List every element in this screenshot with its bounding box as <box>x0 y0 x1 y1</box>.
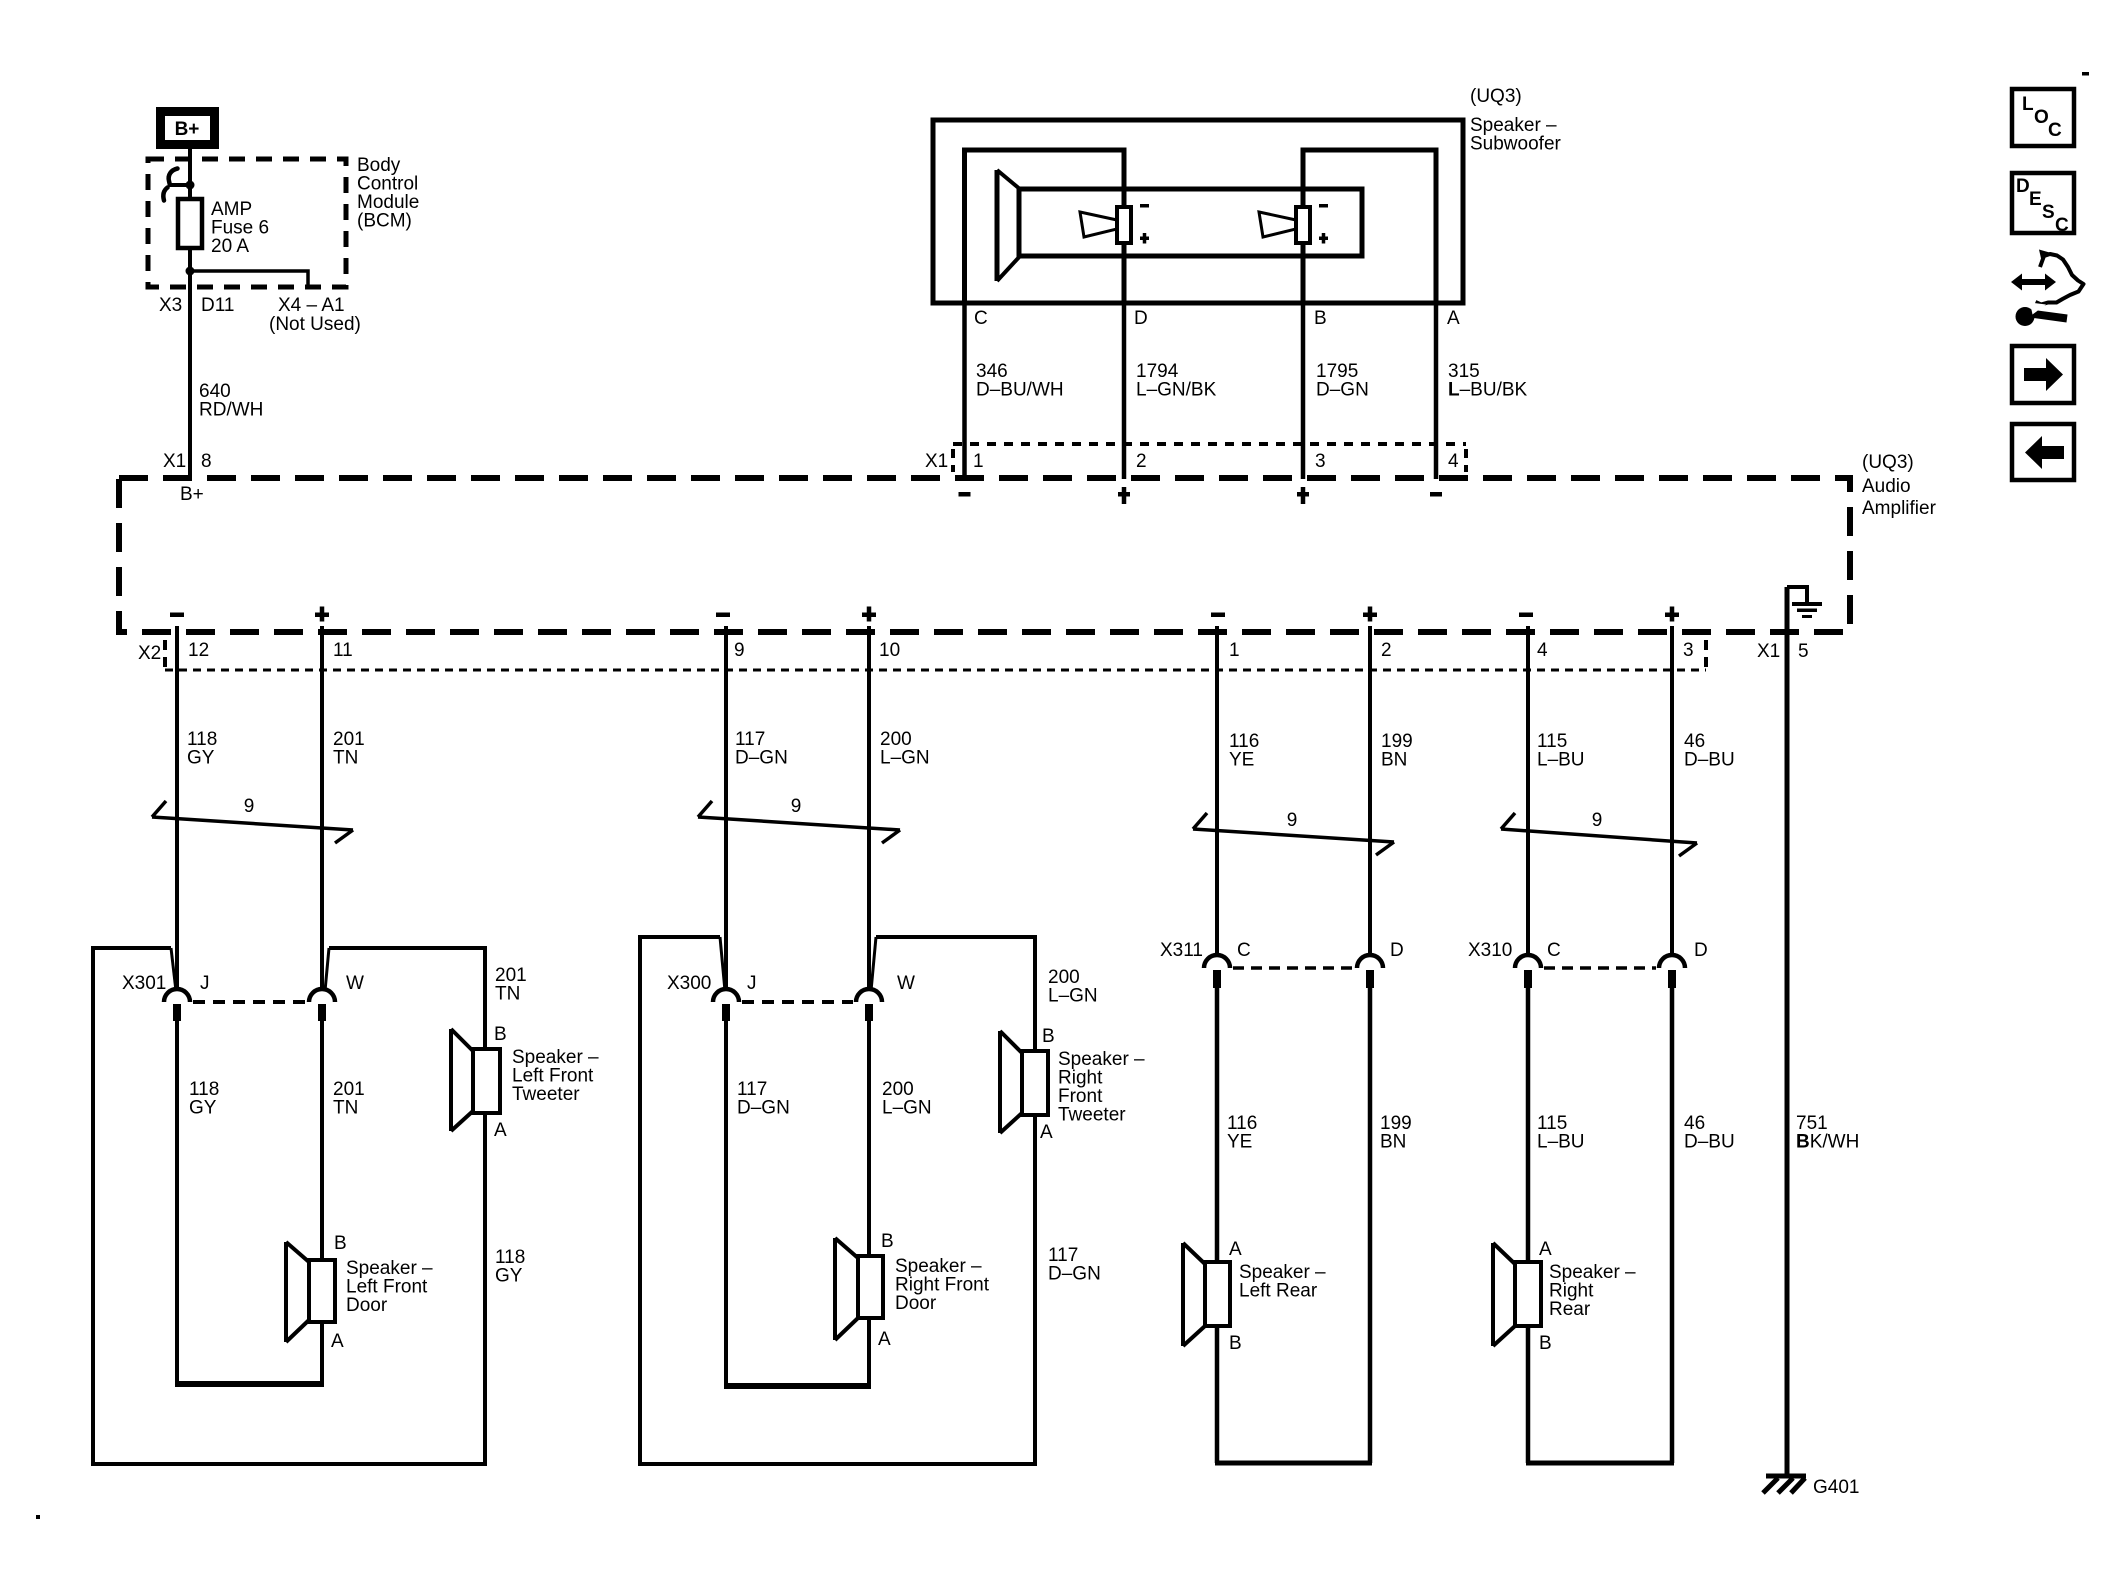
svg-text:X301: X301 <box>122 973 166 994</box>
connector X301 labels <box>122 973 364 994</box>
wire label 315 L-BU/BK <box>1448 361 1528 401</box>
wire bottom link right front <box>724 1383 871 1389</box>
svg-text:A: A <box>1229 1239 1242 1260</box>
speaker right rear labels <box>1539 1239 1636 1354</box>
twisted pair symbol 2 <box>698 796 900 843</box>
wire 200 L-GN inside box <box>867 1021 871 1386</box>
svg-text:D–BU: D–BU <box>1684 1132 1735 1153</box>
wire bottom link left front <box>175 1381 324 1387</box>
amplifier internal ground <box>1787 585 1822 618</box>
icon forward arrow box <box>2012 346 2074 403</box>
connector X300 dashed link <box>742 1000 853 1004</box>
connector X310 pin C arc <box>1515 955 1541 968</box>
amplifier pin X1 5 label <box>1757 641 1809 662</box>
subwoofer inner box right coil <box>1303 150 1436 303</box>
wire label 1794 L-GN/BK <box>1136 361 1217 401</box>
wire label 115 L-BU lower <box>1537 1113 1585 1153</box>
connector X300 pin W stub <box>865 1004 873 1021</box>
box notch right <box>871 937 876 991</box>
wire 640 RD/WH <box>188 287 192 481</box>
wire label 199 BN lower <box>1380 1113 1412 1153</box>
wire label 751 BK/WH <box>1796 1113 1859 1153</box>
icon back arrow box <box>2012 424 2074 480</box>
wire fuse to X3 pin D11 <box>188 248 192 287</box>
speaker left rear <box>1183 1243 1230 1346</box>
svg-text:E: E <box>2029 189 2042 210</box>
svg-text:O: O <box>2034 107 2049 128</box>
twisted pair symbol 3 <box>1193 810 1394 855</box>
connector X311 pin C arc <box>1204 955 1230 968</box>
svg-text:Left Rear: Left Rear <box>1239 1281 1318 1302</box>
wire label 117 D-GN inside <box>737 1079 790 1119</box>
svg-text:B: B <box>1229 1333 1242 1354</box>
audio amplifier label <box>1862 452 1937 519</box>
speaker subwoofer outer box <box>933 120 1463 303</box>
voice coil 1 <box>1080 204 1149 244</box>
speaker right front door labels <box>878 1231 990 1350</box>
audio amplifier UQ3 dashed box <box>119 478 1850 632</box>
node junction dot below fuse <box>186 267 195 276</box>
wire label 118 GY inside <box>189 1079 219 1119</box>
wire 115 L-BU to speaker <box>1526 988 1531 1463</box>
connector X311 dashed link <box>1233 966 1354 970</box>
svg-text:L: L <box>2022 94 2034 115</box>
svg-text:1: 1 <box>1229 640 1240 661</box>
speaker left front door labels <box>331 1233 433 1352</box>
svg-text:11: 11 <box>333 640 353 661</box>
switch hook symbol <box>163 169 177 201</box>
svg-text:X1: X1 <box>925 451 948 472</box>
svg-text:C: C <box>1237 940 1251 961</box>
svg-text:A: A <box>494 1120 507 1141</box>
svg-text:(UQ3): (UQ3) <box>1470 86 1522 107</box>
svg-text:X4 – A1: X4 – A1 <box>278 295 345 316</box>
right front speaker assembly box <box>640 937 1035 1464</box>
svg-text:B+: B+ <box>180 484 204 505</box>
amp input polarity signs for subwoofer <box>959 487 1443 504</box>
wire label 46 D-BU <box>1684 731 1735 771</box>
wire 199 BN from amp <box>1368 626 1372 956</box>
wire subwoofer pin C <box>962 303 967 479</box>
wire 117 D-GN from amp <box>724 626 728 990</box>
svg-text:A: A <box>1539 1239 1552 1260</box>
svg-text:TN: TN <box>333 1098 358 1119</box>
svg-text:D: D <box>1390 940 1404 961</box>
speaker left front tweeter labels <box>494 1024 599 1141</box>
svg-text:5: 5 <box>1798 641 1809 662</box>
connector X310 pin D stub <box>1668 970 1676 988</box>
svg-text:Amplifier: Amplifier <box>1862 498 1937 519</box>
connector X300 pin J stub <box>722 1004 730 1021</box>
wire subwoofer pin A <box>1434 303 1439 479</box>
icon DESC box <box>2012 173 2074 236</box>
wire 116 YE to speaker <box>1215 988 1220 1463</box>
svg-text:X311: X311 <box>1160 940 1203 961</box>
wire label 200 L-GN inside <box>882 1079 932 1119</box>
svg-text:D–GN: D–GN <box>737 1098 790 1119</box>
amp output pin numbers <box>188 640 1694 661</box>
svg-text:B: B <box>334 1233 347 1254</box>
wire 751 BK/WH ground wire <box>1785 587 1790 1476</box>
svg-text:TN: TN <box>495 984 520 1005</box>
svg-text:YE: YE <box>1227 1132 1252 1153</box>
speaker right front tweeter <box>1000 1031 1048 1133</box>
svg-text:20 A: 20 A <box>211 236 249 257</box>
svg-text:2: 2 <box>1136 451 1147 472</box>
svg-text:8: 8 <box>201 451 212 472</box>
speaker left front tweeter <box>451 1029 500 1131</box>
subwoofer cone <box>997 170 1021 281</box>
svg-text:BN: BN <box>1381 750 1407 771</box>
svg-text:C: C <box>974 308 988 329</box>
svg-text:J: J <box>200 973 210 994</box>
wire 118 GY from amp <box>175 626 179 990</box>
svg-text:C: C <box>1547 940 1561 961</box>
wire label 201 TN <box>333 729 365 769</box>
box notch left <box>720 937 725 991</box>
wire 117 D-GN inside box <box>724 1021 728 1386</box>
svg-text:D: D <box>1134 308 1148 329</box>
connector X1 subwoofer pin numbers <box>925 451 1459 472</box>
connector X301 pin W stub <box>318 1004 326 1021</box>
svg-text:9: 9 <box>791 796 802 817</box>
svg-text:G401: G401 <box>1813 1477 1859 1498</box>
wire 118 GY inside box <box>175 1021 179 1384</box>
svg-text:3: 3 <box>1315 451 1326 472</box>
svg-text:W: W <box>897 973 915 994</box>
wire subwoofer pin B <box>1301 303 1306 479</box>
body control module BCM dashed box <box>148 159 346 287</box>
wire label 118 GY <box>187 729 217 769</box>
BCM label <box>357 155 419 232</box>
svg-text:S: S <box>2042 202 2055 223</box>
svg-text:A: A <box>1447 308 1460 329</box>
svg-text:D–BU/WH: D–BU/WH <box>976 380 1064 401</box>
connector X311 pin D stub <box>1366 970 1374 988</box>
svg-text:A: A <box>1040 1122 1053 1143</box>
svg-text:(Not Used): (Not Used) <box>269 314 361 335</box>
svg-text:X3: X3 <box>159 295 182 316</box>
svg-text:Subwoofer: Subwoofer <box>1470 134 1562 155</box>
connector X311 pin C stub <box>1213 970 1221 988</box>
speaker left front door <box>286 1242 335 1342</box>
svg-text:B: B <box>1539 1333 1552 1354</box>
svg-text:4: 4 <box>1448 451 1459 472</box>
wire B+ to fuse <box>188 149 192 201</box>
svg-text:A: A <box>331 1331 344 1352</box>
wire label 118 GY return branch <box>495 1247 525 1287</box>
wire node to fuse <box>188 185 192 201</box>
connector X310 pin C stub <box>1524 970 1532 988</box>
svg-text:YE: YE <box>1229 750 1254 771</box>
connector X300 pin J arc <box>713 989 739 1002</box>
node junction dot <box>186 181 195 190</box>
svg-text:2: 2 <box>1381 640 1392 661</box>
svg-text:L–GN: L–GN <box>882 1098 932 1119</box>
wire label 200 L-GN <box>880 729 930 769</box>
svg-text:L–GN: L–GN <box>880 748 930 769</box>
stray mark top right <box>2082 72 2089 76</box>
speaker right front door <box>835 1238 883 1340</box>
svg-text:L–GN: L–GN <box>1048 986 1098 1007</box>
wire 201 TN inside box <box>320 1021 324 1384</box>
svg-text:TN: TN <box>333 748 358 769</box>
speaker right rear <box>1493 1243 1541 1346</box>
twisted pair symbol 4 <box>1501 810 1697 856</box>
svg-text:W: W <box>346 973 364 994</box>
connector X311 pin D arc <box>1357 955 1383 968</box>
svg-text:X310: X310 <box>1468 940 1512 961</box>
svg-text:C: C <box>2055 215 2069 236</box>
wire label 1795 D-GN <box>1316 361 1369 401</box>
svg-text:BN: BN <box>1380 1132 1406 1153</box>
icon LOC box <box>2012 89 2074 146</box>
svg-text:Tweeter: Tweeter <box>512 1084 580 1105</box>
svg-text:12: 12 <box>188 640 209 661</box>
svg-text:X1: X1 <box>1757 641 1780 662</box>
icon harness repair wrench <box>2011 250 2084 327</box>
ground G401 <box>1763 1474 1859 1499</box>
svg-text:Door: Door <box>895 1293 937 1314</box>
amplifier pin X1 8 label <box>163 451 212 472</box>
svg-text:9: 9 <box>1287 810 1298 831</box>
svg-text:9: 9 <box>1592 810 1603 831</box>
svg-text:X2: X2 <box>138 643 161 664</box>
svg-text:GY: GY <box>187 748 215 769</box>
box notch left <box>171 948 176 991</box>
connector X310 labels <box>1468 940 1708 961</box>
svg-text:L–BU: L–BU <box>1537 1132 1585 1153</box>
svg-text:RD/WH: RD/WH <box>199 400 263 421</box>
fuse AMP Fuse 6 20 A <box>178 199 269 257</box>
B+ battery positive voltage symbol <box>161 112 215 145</box>
wire 46 D-BU from amp <box>1670 626 1674 956</box>
wire 46 D-BU to speaker <box>1670 988 1675 1463</box>
svg-text:J: J <box>747 973 757 994</box>
wire label 117 D-GN <box>735 729 788 769</box>
svg-text:D11: D11 <box>201 295 234 316</box>
svg-text:1: 1 <box>973 451 984 472</box>
connector X310 pin D arc <box>1659 955 1685 968</box>
connector X301 pin W arc <box>309 989 335 1002</box>
wire label 201 TN inside <box>333 1079 365 1119</box>
subwoofer pin letters C D B A <box>974 308 1460 329</box>
amp output polarity signs <box>170 607 1679 622</box>
subwoofer label UQ3 <box>1470 86 1562 155</box>
wire subwoofer pin D <box>1122 303 1127 479</box>
wire label 200 L-GN tweeter branch <box>1048 967 1098 1007</box>
wire label 201 TN tweeter branch <box>495 965 527 1005</box>
wire 116 YE from amp <box>1215 626 1219 956</box>
svg-text:3: 3 <box>1683 640 1694 661</box>
wire 199 BN to speaker <box>1368 988 1373 1463</box>
svg-text:(BCM): (BCM) <box>357 211 412 232</box>
svg-text:B: B <box>1314 308 1327 329</box>
wire label 640 RD/WH <box>199 381 263 421</box>
svg-text:GY: GY <box>495 1266 523 1287</box>
wire bottom link right rear <box>1526 1461 1674 1466</box>
voice coil 2 <box>1259 204 1328 244</box>
wire bottom link left rear <box>1215 1461 1372 1466</box>
svg-text:4: 4 <box>1537 640 1548 661</box>
svg-text:D–GN: D–GN <box>1316 380 1369 401</box>
svg-text:A: A <box>878 1329 891 1350</box>
wire label 115 L-BU <box>1537 731 1585 771</box>
wire branch to X4-A1 not used <box>190 271 308 286</box>
svg-text:D–GN: D–GN <box>1048 1264 1101 1285</box>
svg-text:L–GN/BK: L–GN/BK <box>1136 380 1217 401</box>
connector X311 labels <box>1160 940 1404 961</box>
subwoofer magnet bar <box>1019 189 1362 256</box>
wire label 199 BN <box>1381 731 1413 771</box>
svg-text:Door: Door <box>346 1295 388 1316</box>
svg-text:B: B <box>494 1024 507 1045</box>
svg-text:L–BU/BK: L–BU/BK <box>1448 380 1528 401</box>
connector X2 dotted line <box>165 640 1706 670</box>
wire label 116 YE <box>1229 731 1259 771</box>
svg-text:9: 9 <box>244 796 255 817</box>
wire 201 TN from amp <box>320 626 324 990</box>
svg-text:D–GN: D–GN <box>735 748 788 769</box>
svg-text:L–BU: L–BU <box>1537 750 1585 771</box>
wire label 116 YE lower <box>1227 1113 1257 1153</box>
connector X301 pin J stub <box>173 1004 181 1021</box>
speaker left rear labels <box>1229 1239 1326 1354</box>
wire label 117 D-GN return branch <box>1048 1245 1101 1285</box>
svg-text:9: 9 <box>734 640 745 661</box>
svg-text:D: D <box>2016 176 2030 197</box>
wire label 46 D-BU lower <box>1684 1113 1735 1153</box>
left front speaker assembly box <box>93 948 485 1464</box>
box notch right <box>325 948 329 991</box>
svg-text:Tweeter: Tweeter <box>1058 1105 1126 1126</box>
connector X301 pin J arc <box>164 989 190 1002</box>
subwoofer inner box left coil <box>965 150 1125 303</box>
BCM pin labels X3 D11 X4-A1 <box>159 295 361 335</box>
svg-text:(UQ3): (UQ3) <box>1862 452 1914 473</box>
stray mark bottom left <box>36 1515 40 1519</box>
connector X310 dashed link <box>1544 966 1656 970</box>
wire 115 L-BU from amp <box>1526 626 1530 956</box>
wire 200 L-GN from amp <box>867 626 871 990</box>
svg-text:B+: B+ <box>175 119 200 140</box>
connector X301 dashed link <box>193 1000 306 1004</box>
connector X1 subwoofer dotted bracket <box>953 444 1466 472</box>
svg-text:10: 10 <box>879 640 900 661</box>
speaker right front tweeter labels <box>1040 1026 1145 1143</box>
svg-text:BK/WH: BK/WH <box>1796 1132 1859 1153</box>
svg-text:D: D <box>1694 940 1708 961</box>
svg-text:B: B <box>881 1231 894 1252</box>
svg-text:X1: X1 <box>163 451 186 472</box>
wire hook to node <box>168 183 190 187</box>
svg-text:D–BU: D–BU <box>1684 750 1735 771</box>
wire label 346 D-BU/WH <box>976 361 1064 401</box>
svg-text:C: C <box>2048 120 2062 141</box>
svg-text:Audio: Audio <box>1862 476 1911 497</box>
twisted pair symbol 1 <box>152 796 353 843</box>
connector X300 labels <box>667 973 915 994</box>
svg-text:GY: GY <box>189 1098 217 1119</box>
svg-text:X300: X300 <box>667 973 711 994</box>
svg-text:B: B <box>1042 1026 1055 1047</box>
svg-text:Rear: Rear <box>1549 1299 1591 1320</box>
connector X300 pin W arc <box>856 989 882 1002</box>
